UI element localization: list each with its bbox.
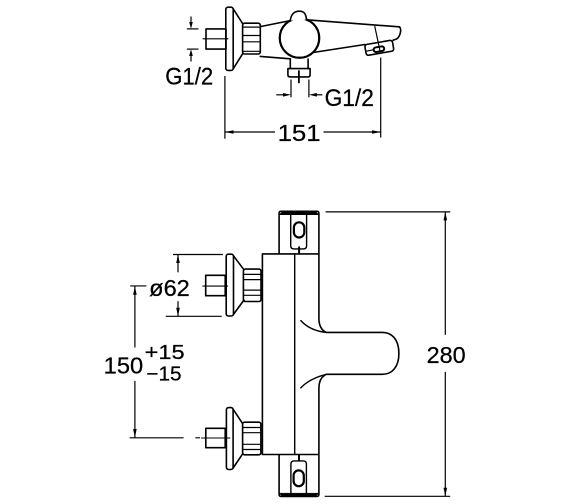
top control knob: [279, 211, 319, 253]
dia62 bottom extension line: [166, 315, 222, 317]
dimension graphics for top view: [187, 17, 381, 139]
upper inlet centerline short dash: [131, 285, 146, 287]
150 arrow up: [133, 286, 137, 295]
280 arrow down: [444, 488, 448, 497]
arrow right to outlet left: [276, 94, 283, 96]
inlet centerline (top view): [203, 38, 228, 40]
aerator housing: [365, 40, 394, 56]
body inner vertical line: [294, 254, 296, 455]
flange cone lower edge: [233, 54, 242, 69]
top knob index tick: [298, 247, 300, 253]
arrow left to outlet right: [317, 94, 323, 96]
spout tip curve: [393, 27, 401, 40]
svg-text:G1/2: G1/2: [165, 64, 213, 91]
extension line right (spout outlet axis): [380, 58, 382, 138]
dia62 dimension line lower segment: [177, 301, 179, 316]
aerator seam line: [366, 50, 374, 52]
150 dimension line lower segment: [134, 381, 136, 438]
lower flange cone edges: [233, 409, 243, 423]
280 dimension line upper segment: [444, 212, 446, 335]
spout underside line: [313, 45, 365, 53]
280 dimension line lower segment: [444, 372, 446, 497]
knob dome cap: [290, 11, 306, 20]
flange cone upper edge: [233, 9, 242, 24]
svg-text:+15: +15: [145, 342, 185, 364]
control knob circle: [280, 18, 320, 58]
dia62 dimension line upper segment: [177, 255, 179, 273]
dia62 arrow up: [176, 255, 180, 264]
upper flange cone edges: [234, 256, 245, 270]
bottom control knob: [279, 455, 319, 496]
spout lower flare curve: [301, 374, 327, 388]
upper wall flange plate: [226, 254, 233, 316]
upper inlet pipe stub: [206, 275, 226, 295]
svg-text:G1/2: G1/2: [325, 85, 374, 112]
spout upper flare curve: [301, 321, 327, 333]
280 top leader line: [326, 211, 451, 213]
bottom knob inner face: [291, 461, 307, 494]
dia62 arrow down: [176, 308, 180, 317]
svg-text:280: 280: [427, 342, 466, 368]
lower inlet pipe stub: [206, 428, 225, 447]
150 arrow down: [133, 429, 137, 438]
lower wall flange plate: [226, 408, 233, 470]
bottom knob face bottom band (thick, slanted ends): [279, 493, 318, 496]
280 arrow up: [444, 212, 448, 221]
shower outlet neck left edge: [289, 59, 291, 69]
body outline with spout: [262, 254, 399, 455]
dimension line 151 left segment: [225, 131, 275, 133]
body bottom edge: [260, 56, 290, 58]
shower outlet extension lines: [290, 80, 292, 98]
spout top line: [307, 20, 400, 27]
280 bottom leader line: [325, 495, 451, 497]
upper hex facet lines: [244, 273, 261, 275]
arrowhead left of 151: [225, 130, 234, 134]
shower outlet neck right edge: [307, 59, 309, 69]
lower inlet centerline dashes: [130, 437, 183, 439]
lower hex nut: [243, 422, 261, 455]
G1/2 inlet lower tick: [187, 48, 199, 50]
svg-text:−15: −15: [146, 363, 181, 385]
svg-text:151: 151: [278, 120, 321, 146]
bottom knob slot oval: [294, 470, 304, 486]
G1/2 inlet upper tick: [187, 28, 199, 30]
svg-text:150: 150: [104, 352, 143, 378]
150 dimension line upper segment: [134, 286, 136, 347]
dimension line 151 right segment: [324, 131, 381, 133]
body top edge: [260, 21, 290, 27]
extension line left (wall plane): [224, 76, 226, 139]
svg-text:ø62: ø62: [149, 275, 190, 301]
shower outlet collar: [288, 69, 310, 77]
upper inlet centerline long dash: [203, 285, 228, 287]
top knob face top band (thick, slanted ends): [279, 212, 318, 215]
top knob inner face: [291, 215, 307, 249]
lower hex facet lines: [243, 427, 261, 429]
arrow up to inlet bottom: [190, 56, 192, 62]
aerator outlet oval: [373, 46, 384, 52]
inlet pipe stub (top view): [206, 29, 226, 49]
bottom knob index tick: [298, 455, 300, 460]
hex nut (top view): [243, 23, 261, 54]
dia62 top extension line: [173, 254, 223, 256]
dimension graphics for bottom view: [133, 212, 450, 496]
spout end cap joint line: [375, 27, 380, 51]
top knob slot oval: [294, 222, 304, 237]
wall flange plate (top view): [226, 7, 233, 70]
upper hex nut: [243, 269, 261, 301]
hex nut facet lines: [243, 26, 260, 28]
arrowhead right of 151: [372, 130, 381, 134]
arrow down to inlet top: [190, 17, 192, 23]
shower outlet center tick: [298, 71, 300, 83]
